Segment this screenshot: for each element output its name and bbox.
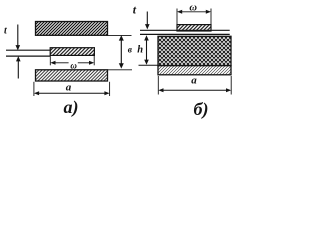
thin deposited layer (two lines) bbox=[140, 29, 230, 31]
bottom plate (hatched, lighter) bbox=[36, 70, 108, 81]
dimension a (left) line with arrows bbox=[37, 92, 107, 94]
extension line of top plate bottom edge toward dimension b bbox=[108, 34, 132, 36]
right plate section (hatched box) bbox=[50, 48, 94, 56]
extension line of block boundary toward dimension h bbox=[139, 64, 159, 66]
dimension w (right) line with arrows bbox=[181, 11, 207, 13]
dimension w (right figure) extension lines bbox=[176, 9, 178, 25]
base block (crosshatched) bbox=[158, 36, 231, 65]
dimension t lower arrow bbox=[17, 61, 19, 79]
svg-text:ω: ω bbox=[189, 2, 197, 13]
dimension a (left) extension lines bbox=[33, 82, 35, 96]
lower strip of block (hatched) bbox=[158, 66, 231, 75]
weld bead box (hatched) on top of layer bbox=[177, 25, 211, 31]
svg-text:t: t bbox=[133, 3, 137, 17]
svg-text:h: h bbox=[137, 45, 143, 56]
dimension t upper arrow bbox=[17, 25, 19, 47]
dimension w line with arrows bbox=[55, 62, 69, 64]
dimension a (right) extension lines bbox=[157, 76, 159, 95]
dimension t arrow (right figure) bbox=[146, 12, 148, 26]
dimension h vertical line with arrows bbox=[146, 39, 148, 62]
svg-text:t: t bbox=[4, 26, 8, 37]
dimension a (right) line with arrows bbox=[162, 89, 229, 91]
svg-text:ω: ω bbox=[70, 60, 77, 70]
dimension w (left figure) extension lines bbox=[49, 56, 51, 66]
svg-text:б): б) bbox=[194, 99, 209, 120]
dimension b (gap) vertical line with arrows bbox=[120, 40, 122, 65]
svg-text:в: в bbox=[128, 45, 133, 55]
svg-text:а): а) bbox=[64, 97, 79, 118]
svg-text:а: а bbox=[191, 74, 197, 86]
top cover plate (hatched) bbox=[36, 22, 108, 36]
svg-text:а: а bbox=[66, 82, 72, 94]
left plate (thin, two lines) bbox=[6, 49, 51, 51]
extension line of bottom plate top edge toward dimension b bbox=[108, 69, 133, 71]
